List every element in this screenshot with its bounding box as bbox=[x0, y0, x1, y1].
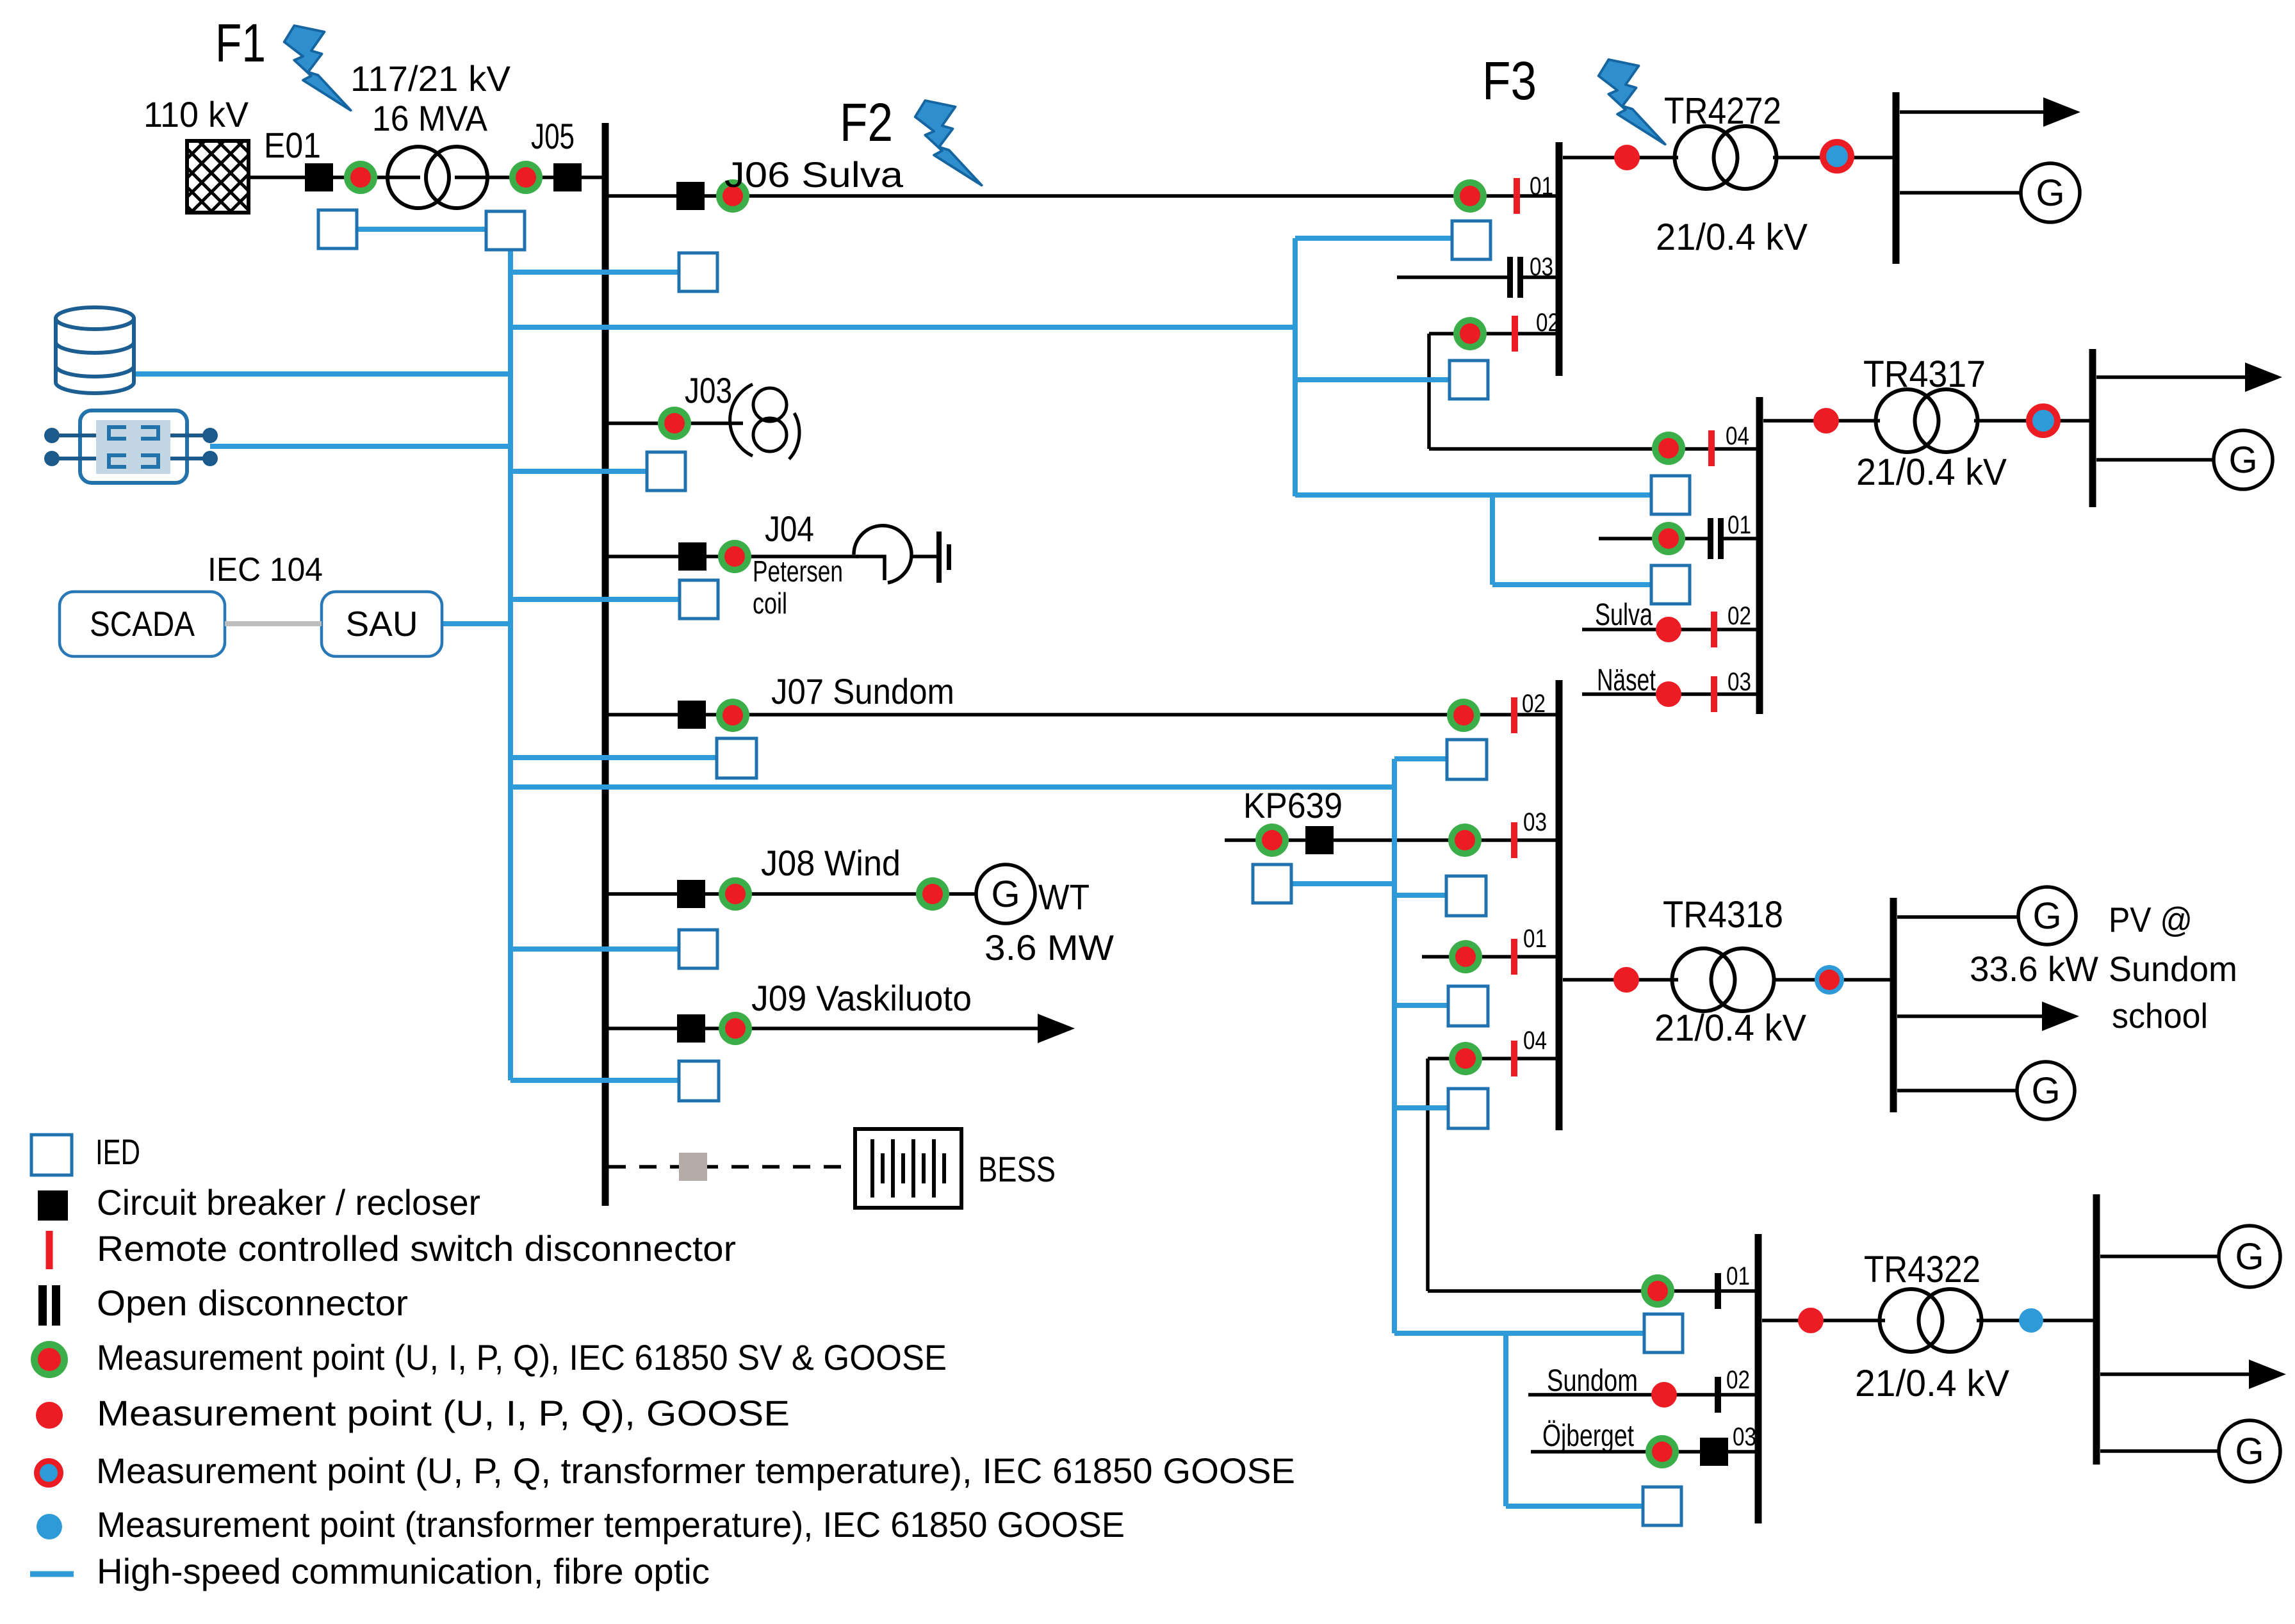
remote switch TR4317-04 bbox=[1708, 430, 1715, 466]
measurement point TR4317-01 bbox=[1652, 522, 1685, 555]
svg-text:Open disconnector: Open disconnector bbox=[97, 1283, 408, 1323]
svg-text:01: 01 bbox=[1727, 511, 1751, 539]
wire TR4272 to LV dot bbox=[1773, 156, 1896, 159]
fibre to J04 IED bbox=[510, 597, 680, 602]
measurement point Sulva01 bbox=[1453, 179, 1487, 213]
svg-text:IED: IED bbox=[95, 1132, 140, 1172]
measurement point WT bbox=[916, 877, 949, 911]
TR4317 Naset 03 wire bbox=[1582, 692, 1756, 696]
svg-text:J08 Wind: J08 Wind bbox=[761, 843, 901, 883]
svg-text:Petersen: Petersen bbox=[753, 555, 843, 588]
measurement point J04 bbox=[718, 540, 751, 573]
measurement point E01 bbox=[344, 161, 377, 194]
measurement point Ojberget bbox=[1646, 1435, 1679, 1468]
fibre to J03 IED bbox=[510, 469, 647, 474]
svg-text:J07 Sundom: J07 Sundom bbox=[771, 671, 954, 711]
svg-text:Remote controlled switch disco: Remote controlled switch disconnector bbox=[97, 1228, 736, 1269]
svg-text:Measurement point (U, I, P, Q): Measurement point (U, I, P, Q), GOOSE bbox=[97, 1393, 790, 1433]
GOOSE point TR4317 MV bbox=[1813, 408, 1839, 434]
fibre long link north bbox=[510, 325, 1295, 330]
TR4317 generator wire bbox=[2096, 458, 2214, 462]
svg-text:F1: F1 bbox=[215, 13, 266, 73]
circuit breaker J08 bbox=[677, 880, 705, 908]
IED Sundom04 bbox=[1448, 1089, 1488, 1128]
remote switch TR4317-02 Sulva bbox=[1711, 612, 1717, 647]
measurement point J08 bbox=[719, 877, 752, 911]
IED TR4317-01 bbox=[1651, 565, 1690, 604]
svg-text:SAU: SAU bbox=[345, 604, 418, 644]
svg-text:3.6 MW: 3.6 MW bbox=[984, 927, 1114, 968]
TR4272 generator bbox=[2021, 163, 2080, 222]
J04 earth electrode bbox=[936, 532, 951, 583]
svg-text:01: 01 bbox=[1726, 1262, 1750, 1290]
svg-text:21/0.4 kV: 21/0.4 kV bbox=[1656, 216, 1808, 258]
fibre to SAU bbox=[442, 621, 510, 626]
TR4317 substation MV bus bbox=[1756, 397, 1763, 714]
BESS battery box bbox=[855, 1129, 961, 1208]
legend temp only symbol bbox=[37, 1514, 62, 1539]
wire TR4318 to LV bus bbox=[1773, 978, 1893, 982]
feeder J03 line bbox=[608, 421, 743, 425]
fault F1 bolt bbox=[284, 26, 351, 110]
svg-text:Öjberget: Öjberget bbox=[1542, 1419, 1634, 1453]
fibre E01-J05 IED link bbox=[357, 227, 486, 232]
svg-text:02: 02 bbox=[1522, 690, 1546, 718]
measurement point TR4322-01 bbox=[1641, 1274, 1674, 1308]
svg-text:J09 Vaskiluoto: J09 Vaskiluoto bbox=[751, 978, 972, 1018]
wire TR4322 to LV bus bbox=[1977, 1319, 2096, 1322]
svg-text:SCADA: SCADA bbox=[90, 604, 195, 644]
feeder J06 Sulva line bbox=[608, 194, 1556, 198]
remote switch Sundom01 bbox=[1511, 939, 1517, 975]
open disconnector Sulva03 bbox=[1507, 257, 1523, 298]
wire TR4322 bus to transformer bbox=[1762, 1319, 1885, 1322]
svg-text:Sulva: Sulva bbox=[1595, 598, 1653, 632]
IED Sulva02 bbox=[1450, 361, 1488, 399]
wire Sulva bus to TR4272 bbox=[1563, 156, 1678, 159]
wire TR4317 to LV bus bbox=[1974, 419, 2093, 423]
measurement point Sundom03 bbox=[1448, 824, 1482, 857]
wire transformer to J05 breaker bbox=[455, 175, 581, 179]
IED KP639 bbox=[1253, 865, 1291, 903]
svg-text:J04: J04 bbox=[765, 508, 814, 549]
IED TR4322-03 bbox=[1643, 1487, 1681, 1525]
measurement point Sundom01 bbox=[1449, 940, 1482, 973]
ethernet switch icon bbox=[44, 410, 218, 483]
svg-text:03: 03 bbox=[1733, 1423, 1756, 1451]
feeder J08 Wind line bbox=[608, 892, 976, 896]
database icon bbox=[56, 307, 134, 393]
svg-text:G: G bbox=[2032, 895, 2061, 937]
main 21 kV bus J05 bbox=[602, 123, 609, 1206]
svg-text:117/21 kV: 117/21 kV bbox=[350, 58, 511, 99]
TR4272 generator wire bbox=[1900, 191, 2021, 195]
TR4322 generator wire top bbox=[2100, 1255, 2219, 1258]
Sundom 04 wire bbox=[1428, 1057, 1556, 1060]
TR4322 generator top bbox=[2219, 1226, 2280, 1287]
fibre to Sundom01 IED bbox=[1394, 1003, 1448, 1008]
TR4318 LV bus bbox=[1890, 898, 1897, 1112]
IED J07 bbox=[717, 738, 756, 778]
BESS converter gray switch bbox=[679, 1153, 707, 1181]
svg-text:Sundom: Sundom bbox=[1547, 1364, 1638, 1398]
fibre to TR4317-04 IED bbox=[1295, 492, 1651, 498]
GOOSE point TR4322 MV bbox=[1798, 1308, 1824, 1333]
link to TR4317 04 bbox=[1429, 447, 1756, 451]
feeder J09 Vaskiluoto line bbox=[608, 1014, 1075, 1043]
transformer TR4317 bbox=[1876, 389, 1978, 452]
fibre riser Sundom bbox=[1392, 759, 1397, 1333]
remote switch TR4317-03 Naset bbox=[1711, 676, 1717, 712]
svg-text:110 kV: 110 kV bbox=[143, 94, 249, 134]
GOOSE point Sulva feeder bbox=[1656, 617, 1681, 642]
wire grid to E01 breaker bbox=[249, 175, 306, 179]
svg-text:02: 02 bbox=[1726, 1366, 1750, 1394]
TR4322 load arrow bbox=[2100, 1360, 2286, 1389]
IED TR4317-04 bbox=[1651, 476, 1690, 514]
TR4322 Sundom 02 wire bbox=[1528, 1393, 1755, 1397]
TR4317 Sulva 02 wire bbox=[1582, 628, 1756, 631]
fibre to J07 IED bbox=[510, 755, 717, 760]
transformer TR4322 bbox=[1880, 1289, 1982, 1352]
fibre to Sundom04 IED bbox=[1394, 1105, 1448, 1110]
TR4318 PV wire bbox=[1897, 915, 2018, 919]
link to TR4322 01 bbox=[1428, 1289, 1755, 1293]
feeder KP639 line bbox=[1225, 838, 1556, 842]
link Sulva02 down bbox=[1427, 334, 1431, 449]
Sundom 01 wire bbox=[1422, 955, 1556, 959]
TR4322 LV bus bbox=[2093, 1194, 2100, 1465]
legend GOOSE point symbol bbox=[36, 1402, 63, 1429]
TR4322 generator bottom bbox=[2219, 1420, 2280, 1482]
IED Sulva01 bbox=[1452, 221, 1491, 259]
TR4317 generator bbox=[2214, 430, 2273, 489]
measurement point J09 bbox=[719, 1012, 752, 1045]
circuit breaker KP639 bbox=[1305, 826, 1334, 854]
circuit breaker E01 bbox=[305, 163, 333, 191]
link Sundom04 down bbox=[1426, 1059, 1430, 1291]
TR4322 generator wire bottom bbox=[2100, 1449, 2219, 1453]
svg-text:G: G bbox=[2031, 1070, 2060, 1112]
TR4317 01 stub bbox=[1599, 537, 1708, 540]
svg-text:school: school bbox=[2112, 996, 2208, 1035]
IED J03 bbox=[647, 452, 685, 491]
fibre trunk vertical bbox=[508, 229, 513, 1080]
wire E01 breaker to transformer bbox=[332, 175, 420, 179]
circuit breaker J09 bbox=[677, 1014, 705, 1043]
fault F2 bolt bbox=[915, 101, 982, 185]
TR4272 load arrow bbox=[1900, 97, 2080, 127]
fibre to J08 IED bbox=[510, 946, 679, 952]
fibre to J09 IED bbox=[510, 1078, 679, 1083]
svg-text:G: G bbox=[2036, 172, 2064, 214]
svg-text:TR4322: TR4322 bbox=[1864, 1249, 1981, 1290]
IED J08 bbox=[679, 930, 717, 968]
fibre to TR4322 bottom IED bbox=[1506, 1504, 1643, 1509]
svg-text:Measurement point (U, P, Q, tr: Measurement point (U, P, Q, transformer … bbox=[96, 1450, 1295, 1491]
svg-text:PV @: PV @ bbox=[2109, 900, 2193, 939]
feeder J04 line bbox=[608, 555, 858, 558]
GOOSE point TR4272 MV bbox=[1614, 145, 1640, 170]
svg-text:High-speed communication, fibr: High-speed communication, fibre optic bbox=[97, 1551, 710, 1591]
TR4272 LV bus bbox=[1893, 92, 1900, 264]
svg-text:G: G bbox=[2228, 439, 2257, 481]
measurement point Sundom04 bbox=[1449, 1042, 1482, 1075]
legend temp point symbol bbox=[34, 1458, 63, 1488]
svg-text:03: 03 bbox=[1727, 668, 1751, 696]
svg-text:J03: J03 bbox=[685, 370, 732, 410]
TR4322 Ojberget 03 wire bbox=[1531, 1450, 1755, 1454]
svg-text:TR4318: TR4318 bbox=[1663, 894, 1783, 936]
switch TR4322-01 bbox=[1715, 1273, 1721, 1309]
IED J09 bbox=[679, 1061, 719, 1101]
IED E01 bbox=[318, 210, 357, 248]
svg-text:TR4272: TR4272 bbox=[1664, 90, 1781, 132]
circuit breaker Ojberget bbox=[1700, 1438, 1728, 1466]
svg-text:03: 03 bbox=[1523, 808, 1547, 836]
TR4317 load arrow bbox=[2096, 362, 2282, 392]
remote switch Sundom04 bbox=[1511, 1041, 1517, 1076]
TR4318 load arrow bbox=[1897, 1002, 2079, 1031]
IED Sundom01 bbox=[1448, 986, 1488, 1026]
svg-text:21/0.4 kV: 21/0.4 kV bbox=[1654, 1007, 1806, 1049]
transformer 117/21kV 16MVA bbox=[388, 147, 487, 208]
svg-text:02: 02 bbox=[1536, 309, 1560, 337]
GOOSE point TR4318 MV bbox=[1613, 967, 1639, 993]
IEC 104 link bbox=[225, 621, 322, 626]
feeder J07 Sundom line bbox=[608, 713, 1556, 717]
fibre to database bbox=[135, 371, 510, 377]
measurement point TR4317-04 bbox=[1652, 432, 1685, 465]
svg-text:E01: E01 bbox=[264, 125, 321, 165]
TR4317 LV bus bbox=[2089, 349, 2096, 507]
svg-text:BESS: BESS bbox=[978, 1149, 1056, 1189]
svg-text:TR4317: TR4317 bbox=[1863, 353, 1986, 395]
transformer TR4318 bbox=[1672, 948, 1774, 1011]
Sundom substation MV bus bbox=[1556, 680, 1563, 1130]
SAU box bbox=[322, 592, 442, 656]
fault F3 bolt bbox=[1599, 60, 1665, 144]
BESS dashed feeder bbox=[608, 1165, 855, 1169]
svg-text:KP639: KP639 bbox=[1243, 785, 1343, 825]
temp point TR4272 LV bbox=[1820, 139, 1854, 174]
fibre to Sundom02 IED bbox=[1394, 756, 1447, 761]
transformer TR4272 bbox=[1675, 126, 1777, 189]
legend fibre symbol bbox=[30, 1571, 74, 1577]
IED J04 bbox=[680, 580, 718, 619]
TR4317 01 tail bbox=[1724, 537, 1756, 540]
IED TR4322-01 bbox=[1644, 1314, 1683, 1352]
GOOSE point Sundom feeder bbox=[1651, 1382, 1677, 1408]
110kV external grid bbox=[187, 141, 249, 213]
measurement point Sundom02 bbox=[1447, 699, 1480, 732]
measurement point KP639 bbox=[1255, 824, 1289, 857]
legend SV point symbol bbox=[31, 1341, 68, 1378]
switch TR4322-02 bbox=[1715, 1377, 1721, 1413]
TR4318 generator wire bbox=[1897, 1089, 2017, 1092]
svg-text:Sundom: Sundom bbox=[2109, 949, 2237, 989]
svg-text:F2: F2 bbox=[840, 92, 893, 152]
fibre riser TR4322 bbox=[1503, 1333, 1508, 1506]
fibre to J06 IED bbox=[510, 270, 679, 275]
TR4318 generator bbox=[2017, 1062, 2075, 1119]
legend IED symbol bbox=[31, 1135, 72, 1175]
svg-text:Measurement point (U, I, P, Q): Measurement point (U, I, P, Q), IEC 6185… bbox=[97, 1337, 947, 1377]
fibre to Sulva02 IED bbox=[1295, 377, 1450, 382]
svg-text:G: G bbox=[2235, 1431, 2264, 1472]
temp point TR4318 LV bbox=[1815, 965, 1844, 995]
Sulva substation MV bus bbox=[1556, 142, 1563, 376]
TR4318 PV generator bbox=[2018, 887, 2076, 945]
wire J05 breaker to main bus bbox=[581, 175, 605, 179]
fibre riser Sulva bbox=[1293, 238, 1298, 496]
GOOSE point Naset feeder bbox=[1656, 681, 1681, 707]
J03 earthing transformer bbox=[730, 384, 799, 459]
svg-text:Measurement point (transformer: Measurement point (transformer temperatu… bbox=[97, 1504, 1125, 1545]
fibre to TR4317-01 IED bbox=[1492, 582, 1651, 587]
svg-text:33.6 kW: 33.6 kW bbox=[1970, 949, 2098, 989]
svg-text:02: 02 bbox=[1727, 602, 1751, 630]
wire Sundom bus to TR4318 bbox=[1563, 978, 1678, 982]
legend remote switch symbol bbox=[46, 1231, 53, 1269]
fibre to TR4322-01 IED bbox=[1394, 1331, 1644, 1336]
svg-text:coil: coil bbox=[753, 587, 787, 620]
fibre to Sulva01 IED bbox=[1295, 236, 1452, 241]
WT generator circle bbox=[976, 865, 1035, 923]
circuit breaker J07 bbox=[678, 701, 706, 729]
measurement point J07 bbox=[716, 699, 749, 732]
svg-text:01: 01 bbox=[1523, 925, 1547, 953]
fibre to Sundom03 IED bbox=[1394, 893, 1446, 898]
remote switch Sundom02 bbox=[1511, 697, 1517, 733]
J04 Petersen coil bbox=[854, 526, 936, 583]
SCADA box bbox=[60, 592, 225, 656]
circuit breaker J06 bbox=[676, 182, 705, 210]
svg-text:Circuit breaker / recloser: Circuit breaker / recloser bbox=[97, 1182, 480, 1222]
svg-text:G: G bbox=[2235, 1236, 2264, 1278]
IED Sundom03 bbox=[1446, 876, 1486, 916]
measurement point J05 bbox=[509, 161, 543, 194]
measurement point J06 bbox=[716, 179, 749, 213]
measurement point Sulva02 bbox=[1453, 317, 1487, 350]
svg-text:21/0.4 kV: 21/0.4 kV bbox=[1855, 1363, 2009, 1404]
svg-text:Näset: Näset bbox=[1597, 663, 1656, 697]
remote switch Sundom03 bbox=[1511, 822, 1517, 858]
svg-text:04: 04 bbox=[1726, 422, 1749, 450]
fibre to switch bbox=[210, 444, 510, 449]
IED J06 bbox=[679, 253, 717, 291]
wire TR4317 bus to transformer bbox=[1763, 419, 1880, 423]
svg-text:F3: F3 bbox=[1482, 51, 1537, 111]
Sulva 03 tail to bus bbox=[1523, 275, 1556, 279]
circuit breaker J05 bbox=[553, 163, 582, 191]
svg-text:04: 04 bbox=[1523, 1027, 1547, 1055]
measurement point J03 bbox=[658, 407, 691, 440]
TR4322 substation MV bus bbox=[1755, 1234, 1762, 1523]
open disconnector TR4317-01 bbox=[1708, 518, 1724, 559]
svg-text:16 MVA: 16 MVA bbox=[372, 98, 488, 138]
svg-text:21/0.4 kV: 21/0.4 kV bbox=[1856, 451, 2007, 493]
IED Sundom02 bbox=[1447, 740, 1487, 779]
IED J05 bbox=[486, 211, 525, 250]
svg-text:IEC 104: IEC 104 bbox=[208, 551, 323, 589]
temp point TR4317 LV bbox=[2026, 403, 2061, 438]
remote switch Sulva02 bbox=[1512, 316, 1518, 352]
svg-text:G: G bbox=[991, 873, 1020, 915]
legend breaker symbol bbox=[38, 1190, 68, 1221]
svg-text:J05: J05 bbox=[531, 116, 575, 156]
legend open disconnector symbol bbox=[38, 1285, 60, 1326]
fibre long link south bbox=[510, 784, 1394, 790]
svg-text:WT: WT bbox=[1038, 877, 1090, 917]
temp point TR4322 LV bbox=[2019, 1308, 2043, 1333]
circuit breaker J04 bbox=[678, 542, 706, 571]
Sulva 03 open stub bbox=[1397, 275, 1507, 279]
remote switch Sulva01 bbox=[1514, 178, 1520, 214]
svg-text:03: 03 bbox=[1530, 253, 1553, 281]
svg-text:01: 01 bbox=[1530, 172, 1553, 200]
svg-text:J06 Sulva: J06 Sulva bbox=[724, 154, 904, 195]
fibre KP639 IED link bbox=[1291, 881, 1394, 886]
fibre riser TR4317 bbox=[1490, 495, 1495, 585]
Sulva 02 wire bbox=[1429, 332, 1556, 336]
